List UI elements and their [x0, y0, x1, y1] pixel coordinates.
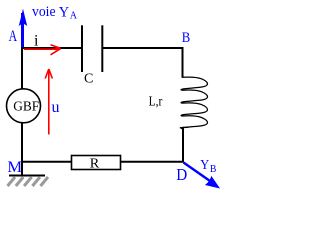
svg-text:D: D — [176, 165, 187, 184]
svg-text:GBF: GBF — [13, 99, 39, 114]
svg-text:voie: voie — [32, 4, 56, 20]
svg-text:A: A — [70, 10, 78, 21]
svg-text:A: A — [9, 28, 18, 45]
svg-text:B: B — [210, 163, 217, 175]
svg-text:M: M — [7, 159, 22, 176]
svg-text:L,r: L,r — [149, 94, 163, 109]
svg-text:u: u — [52, 99, 60, 116]
svg-text:C: C — [84, 72, 93, 87]
svg-text:R: R — [90, 156, 100, 171]
svg-text:i: i — [34, 32, 39, 49]
svg-text:B: B — [182, 30, 191, 46]
svg-text:Y: Y — [59, 5, 70, 21]
svg-text:Y: Y — [200, 158, 209, 173]
